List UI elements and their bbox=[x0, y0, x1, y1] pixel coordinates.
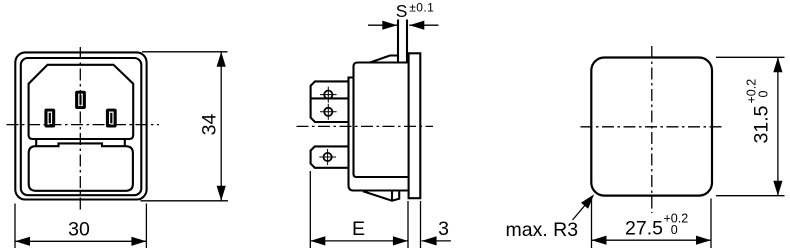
svg-text:0: 0 bbox=[757, 91, 771, 98]
svg-text:27.5: 27.5 bbox=[625, 218, 663, 240]
svg-text:S: S bbox=[396, 1, 408, 21]
svg-text:30: 30 bbox=[68, 218, 90, 240]
svg-text:31.5: 31.5 bbox=[751, 105, 773, 143]
svg-text:E: E bbox=[352, 218, 365, 240]
svg-text:max. R3: max. R3 bbox=[506, 219, 579, 241]
svg-text:0: 0 bbox=[671, 223, 678, 237]
svg-text:34: 34 bbox=[199, 114, 221, 136]
svg-text:3: 3 bbox=[438, 218, 449, 240]
svg-text:±0.1: ±0.1 bbox=[409, 0, 434, 14]
